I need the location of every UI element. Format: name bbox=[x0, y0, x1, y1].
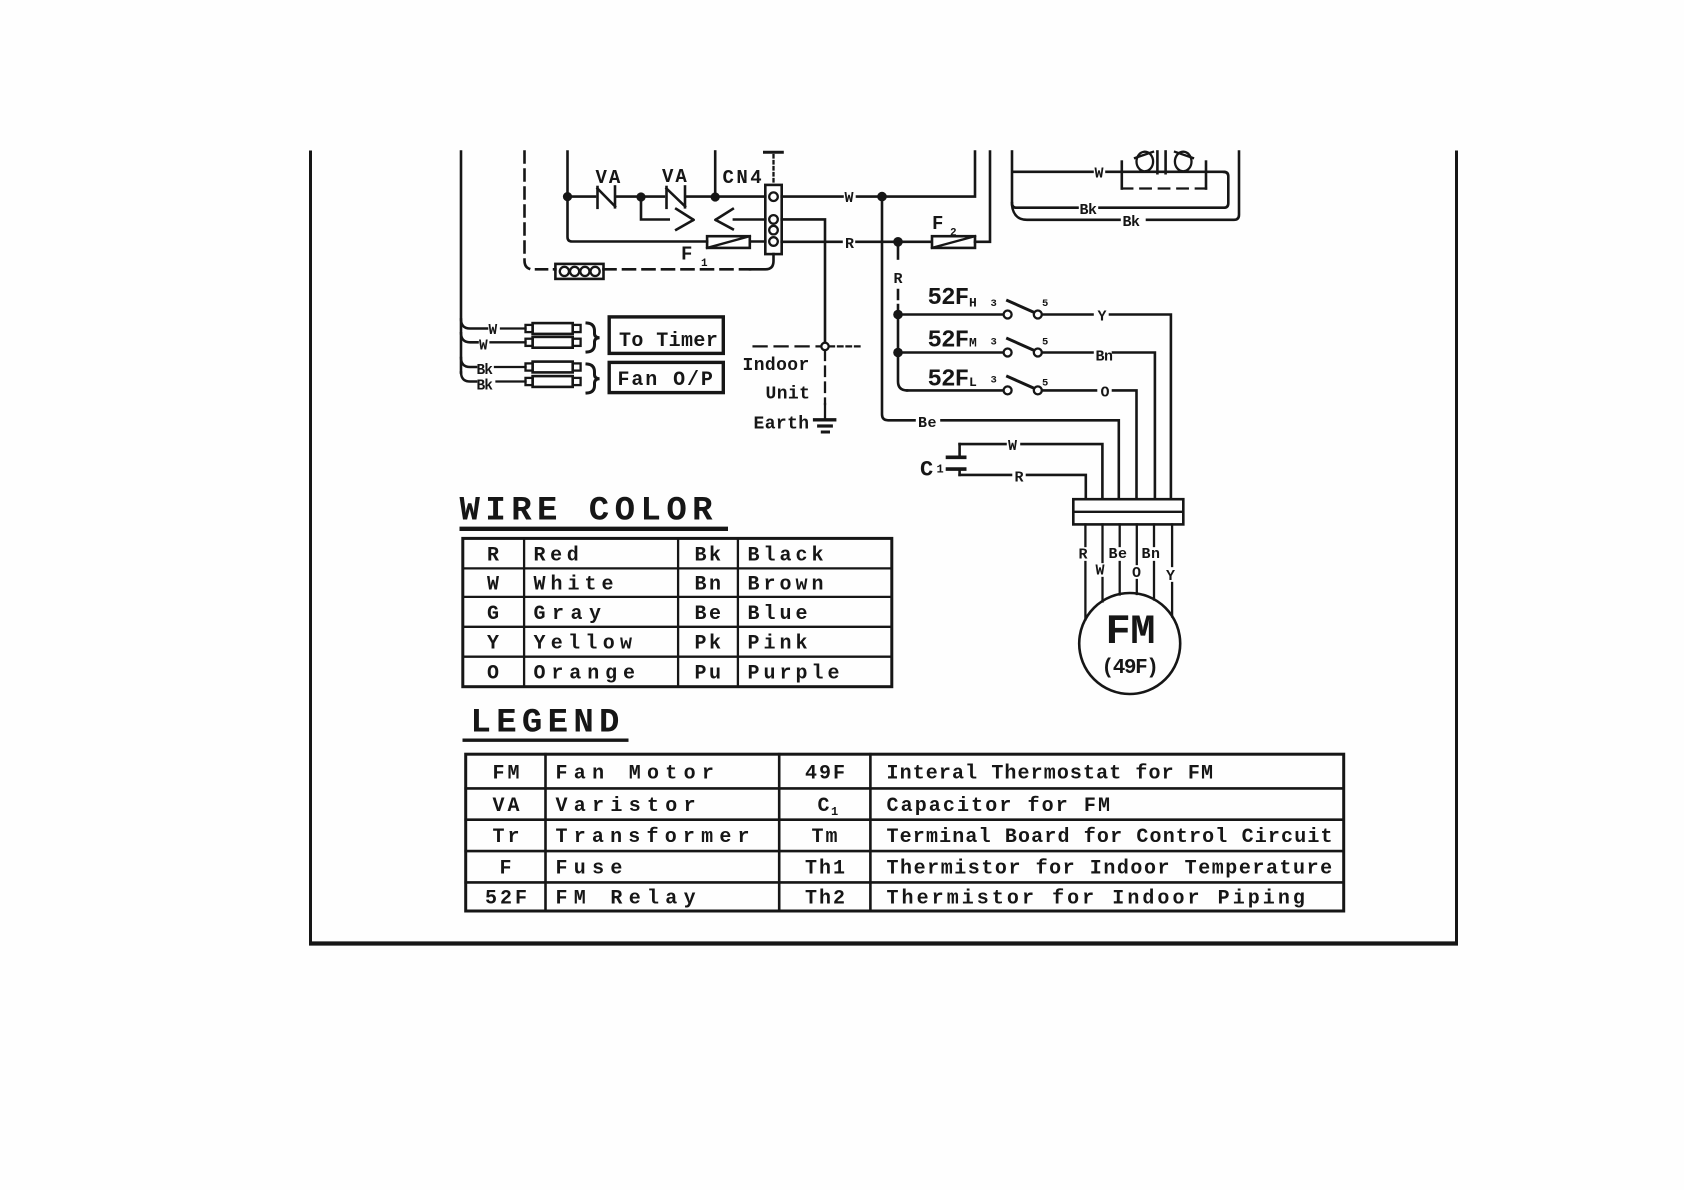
svg-text:Bn: Bn bbox=[1096, 349, 1114, 366]
plug connector row2 bbox=[526, 337, 581, 348]
svg-text:2: 2 bbox=[950, 228, 957, 240]
svg-text:Purple: Purple bbox=[748, 663, 844, 686]
dashed wire to CN4 tail bbox=[604, 268, 751, 271]
svg-text:Tm: Tm bbox=[812, 826, 840, 849]
svg-text:Interal Thermostat for FM: Interal Thermostat for FM bbox=[887, 762, 1215, 785]
svg-text:52F: 52F bbox=[928, 285, 969, 312]
transformer Tr coils bbox=[1135, 152, 1193, 174]
svg-text:F: F bbox=[932, 213, 943, 235]
R bus vertical bbox=[894, 242, 908, 390]
svg-text:W: W bbox=[1008, 438, 1017, 455]
wire color table col2 names bbox=[534, 544, 641, 685]
wire left bus vertical bbox=[461, 152, 487, 382]
svg-text:Brown: Brown bbox=[748, 574, 828, 597]
plug connector row1 bbox=[526, 323, 581, 334]
ground symbol bbox=[813, 404, 837, 432]
svg-text:W: W bbox=[845, 190, 854, 207]
transformer dashed shield bbox=[1122, 187, 1206, 189]
svg-text:Tr: Tr bbox=[493, 826, 523, 849]
svg-text:Bk: Bk bbox=[695, 544, 724, 567]
svg-text:5: 5 bbox=[1042, 336, 1048, 348]
heading WIRE COLOR bbox=[460, 493, 729, 531]
wire C1 W lead bbox=[960, 438, 1103, 499]
CN4 bottom tail bbox=[750, 254, 774, 269]
heading LEGEND bbox=[463, 705, 629, 743]
junction dot node W2 bbox=[636, 192, 645, 201]
fuse F1 bbox=[681, 236, 750, 270]
relay 52FH label bbox=[928, 285, 977, 312]
fuse F2 bbox=[932, 213, 975, 248]
junction dot node R3 bbox=[893, 348, 903, 358]
svg-text:Unit: Unit bbox=[766, 385, 811, 405]
wire Y output bbox=[1042, 309, 1171, 500]
wire Bk2 lower bbox=[1012, 206, 1120, 220]
svg-text:Transformer: Transformer bbox=[556, 826, 756, 849]
svg-text:Thermistor for Indoor Piping: Thermistor for Indoor Piping bbox=[887, 887, 1308, 910]
wire W segment bbox=[687, 195, 713, 198]
relay contact 52FL bbox=[907, 375, 1048, 395]
svg-text:Pu: Pu bbox=[695, 663, 724, 686]
relay contact 52FH bbox=[898, 298, 1048, 319]
fan motor FM circle bbox=[1079, 593, 1180, 694]
svg-text:52F: 52F bbox=[485, 887, 530, 910]
border frame bottom bbox=[309, 941, 1458, 945]
wire CN4 pin2 to earth drop bbox=[782, 219, 825, 342]
svg-text:Bk: Bk bbox=[1123, 214, 1141, 231]
svg-text:Be: Be bbox=[918, 415, 937, 432]
connector 4-hole plug bbox=[555, 264, 603, 279]
CN4 top T mark bbox=[765, 152, 783, 184]
motor lead W bbox=[1096, 524, 1105, 601]
motor lead Be bbox=[1109, 524, 1128, 594]
relay 52FL label bbox=[928, 366, 978, 393]
svg-text:Pk: Pk bbox=[695, 633, 724, 656]
svg-text:C: C bbox=[920, 458, 933, 483]
wire color table grid bbox=[463, 538, 892, 686]
svg-text:1: 1 bbox=[701, 258, 708, 270]
svg-text:5: 5 bbox=[1042, 298, 1048, 310]
svg-text:CN4: CN4 bbox=[723, 167, 765, 189]
capacitor C1 bbox=[920, 444, 967, 482]
wire color table col1 codes bbox=[487, 544, 499, 685]
svg-text:Bn: Bn bbox=[695, 574, 724, 597]
svg-text:G: G bbox=[487, 603, 499, 626]
top stub wire bbox=[714, 152, 717, 195]
legend col3 codes bbox=[805, 762, 847, 910]
svg-text:Orange: Orange bbox=[534, 663, 641, 686]
legend col2 names bbox=[556, 762, 756, 910]
wire stubs to plugs bbox=[491, 329, 526, 382]
junction dot node W1 bbox=[563, 192, 572, 201]
varistor VA2 bbox=[662, 166, 689, 208]
varistor VA1 bbox=[596, 167, 623, 208]
svg-text:Fan Motor: Fan Motor bbox=[556, 762, 721, 785]
wire O output bbox=[1042, 385, 1136, 500]
bus to F1 vertical bbox=[568, 152, 708, 242]
svg-text:White: White bbox=[534, 574, 619, 597]
svg-text:O: O bbox=[487, 663, 499, 686]
junction dot node R2 bbox=[893, 310, 903, 320]
transformer Tr primary lead bbox=[1012, 152, 1224, 203]
svg-text:R: R bbox=[845, 236, 854, 253]
svg-text:3: 3 bbox=[991, 336, 997, 348]
wire W to corner up bbox=[857, 152, 975, 197]
wire F2 to corner up bbox=[975, 152, 990, 242]
svg-text:LEGEND: LEGEND bbox=[471, 705, 625, 743]
wire color table col4 names bbox=[748, 544, 844, 685]
junction dot node W4 bbox=[877, 192, 887, 202]
svg-text:R: R bbox=[487, 544, 499, 567]
svg-text:Bk: Bk bbox=[1080, 202, 1098, 219]
svg-text:Thermistor for Indoor Temperat: Thermistor for Indoor Temperature bbox=[887, 858, 1334, 881]
svg-text:(49F): (49F) bbox=[1102, 657, 1158, 680]
legend col1 codes bbox=[485, 762, 530, 910]
wire C1 R lead bbox=[960, 470, 1086, 500]
svg-text:W: W bbox=[1095, 166, 1104, 183]
svg-text:FM: FM bbox=[1106, 608, 1155, 656]
svg-text:Be: Be bbox=[695, 603, 724, 626]
legend table grid bbox=[466, 754, 1344, 911]
motor lead Bn bbox=[1142, 524, 1161, 599]
legend col4 descriptions bbox=[887, 762, 1334, 910]
svg-text:F: F bbox=[681, 244, 692, 266]
dashed earth wire down bbox=[824, 351, 826, 405]
svg-text:H: H bbox=[969, 295, 977, 310]
transformer Tr secondary lead bbox=[1100, 162, 1229, 208]
plug connector row3 bbox=[526, 362, 581, 373]
wire W segment bbox=[617, 195, 639, 198]
earth node circle bbox=[821, 343, 828, 350]
motor lead O bbox=[1132, 524, 1141, 594]
junction dot node W3 bbox=[711, 192, 720, 201]
svg-text:VA: VA bbox=[662, 166, 689, 188]
svg-text:Fan O/P: Fan O/P bbox=[618, 369, 715, 392]
wire W segment bbox=[643, 195, 664, 198]
svg-text:Earth: Earth bbox=[754, 415, 810, 435]
svg-text:1: 1 bbox=[831, 805, 838, 819]
svg-text:3: 3 bbox=[991, 298, 997, 310]
border frame left bbox=[309, 152, 312, 942]
junction dot node R1 bbox=[893, 237, 903, 247]
svg-text:Th2: Th2 bbox=[805, 887, 847, 910]
relay 52FM label bbox=[928, 327, 978, 354]
svg-text:FM: FM bbox=[493, 762, 523, 785]
wire Bk1 to left bus bbox=[1012, 203, 1078, 208]
Fan O/P box bbox=[609, 362, 723, 392]
dashed bus vertical bbox=[525, 152, 556, 270]
svg-text:Y: Y bbox=[487, 633, 499, 656]
wire Bk2 to corner up bbox=[1147, 152, 1239, 220]
svg-text:W: W bbox=[489, 323, 498, 339]
svg-text:L: L bbox=[969, 375, 977, 390]
svg-text:Th1: Th1 bbox=[805, 858, 847, 881]
wire W right of CN4 bbox=[782, 195, 843, 198]
svg-text:R: R bbox=[1015, 470, 1024, 487]
svg-text:VA: VA bbox=[493, 795, 523, 818]
svg-text:Red: Red bbox=[534, 544, 584, 567]
terminal board Tm bbox=[1073, 499, 1183, 524]
svg-text:FM Relay: FM Relay bbox=[556, 887, 702, 910]
svg-text:1: 1 bbox=[937, 463, 944, 477]
svg-text:C: C bbox=[818, 795, 830, 818]
dashed earth wire right bbox=[830, 345, 862, 347]
wire R to F2 bbox=[857, 241, 931, 244]
svg-text:R: R bbox=[894, 271, 903, 288]
svg-text:To Timer: To Timer bbox=[619, 330, 718, 353]
wire W into CN4 bbox=[717, 195, 765, 198]
svg-text:Y: Y bbox=[1166, 568, 1175, 585]
border frame right bbox=[1455, 152, 1458, 942]
svg-text:W: W bbox=[479, 338, 488, 354]
svg-text:3: 3 bbox=[991, 375, 997, 387]
svg-text:VA: VA bbox=[596, 167, 623, 189]
relay contact 52FM bbox=[898, 336, 1048, 356]
svg-text:5: 5 bbox=[1042, 377, 1048, 389]
wire Bn output bbox=[1042, 349, 1155, 500]
svg-text:O: O bbox=[1101, 385, 1110, 402]
wire Be line bbox=[882, 198, 1119, 499]
svg-text:Bn: Bn bbox=[1142, 546, 1161, 563]
svg-text:Indoor: Indoor bbox=[743, 356, 810, 376]
wire F1 to CN4 bbox=[750, 240, 766, 243]
svg-text:52F: 52F bbox=[928, 327, 969, 354]
svg-text:M: M bbox=[969, 335, 977, 350]
svg-text:Blue: Blue bbox=[748, 603, 812, 626]
svg-text:Gray: Gray bbox=[534, 603, 608, 626]
svg-text:Bk: Bk bbox=[477, 378, 494, 394]
To Timer box bbox=[609, 317, 723, 354]
wire color table col3 codes bbox=[695, 544, 724, 685]
svg-text:Be: Be bbox=[1109, 546, 1128, 563]
motor lead Y bbox=[1166, 524, 1175, 616]
svg-text:F: F bbox=[500, 858, 512, 881]
svg-text:Varistor: Varistor bbox=[556, 795, 702, 818]
svg-text:Pink: Pink bbox=[748, 633, 812, 656]
plug connector row4 bbox=[526, 376, 581, 387]
label Indoor Unit Earth bbox=[743, 356, 811, 435]
svg-text:Y: Y bbox=[1098, 309, 1107, 326]
svg-text:Fuse: Fuse bbox=[556, 858, 629, 881]
svg-text:Terminal Board for Control Cir: Terminal Board for Control Circuit bbox=[887, 826, 1334, 849]
connector CN4 bbox=[765, 185, 781, 254]
svg-text:W: W bbox=[487, 574, 499, 597]
svg-text:WIRE COLOR: WIRE COLOR bbox=[460, 493, 719, 531]
wire W segment bbox=[569, 195, 595, 198]
dashed earth wire left bbox=[754, 345, 821, 347]
svg-text:Capacitor for FM: Capacitor for FM bbox=[887, 795, 1113, 818]
brace timer pair bbox=[587, 323, 600, 352]
wire R right of CN4 bbox=[782, 241, 842, 244]
svg-text:Black: Black bbox=[748, 544, 828, 567]
svg-text:49F: 49F bbox=[805, 762, 847, 785]
motor lead R bbox=[1079, 524, 1088, 619]
svg-text:Yellow: Yellow bbox=[534, 633, 638, 656]
spark gap arrester bbox=[641, 199, 765, 230]
svg-text:Bk: Bk bbox=[477, 363, 494, 379]
brace fan pair bbox=[587, 364, 600, 393]
